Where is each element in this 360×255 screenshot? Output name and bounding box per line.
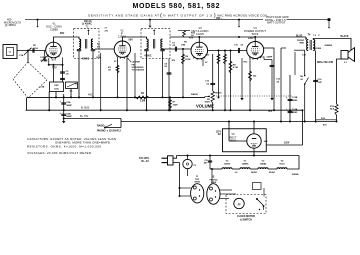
svg-text:(: ( bbox=[160, 13, 162, 19]
svg-text:7.7V: 7.7V bbox=[52, 68, 57, 70]
svg-text:OFF: OFF bbox=[268, 111, 273, 113]
svg-text:24VAC: 24VAC bbox=[251, 171, 258, 174]
svg-text:12BE6: 12BE6 bbox=[50, 28, 59, 32]
svg-text:455KC: 455KC bbox=[82, 57, 90, 60]
svg-text:AVC: AVC bbox=[88, 94, 93, 97]
svg-text:50C5: 50C5 bbox=[252, 32, 259, 36]
svg-text:B+ 70V: B+ 70V bbox=[80, 115, 89, 118]
svg-text:C1B: C1B bbox=[40, 87, 45, 89]
svg-text:+: + bbox=[286, 96, 288, 100]
svg-text:C13B: C13B bbox=[292, 97, 298, 99]
svg-text:12AV6: 12AV6 bbox=[224, 162, 231, 165]
svg-text:VOLTAGES: 20,000 OHMS/VOLT MET: VOLTAGES: 20,000 OHMS/VOLT METER bbox=[27, 151, 91, 155]
svg-text:BLACK: BLACK bbox=[341, 35, 349, 38]
svg-text:470K: 470K bbox=[185, 58, 191, 61]
svg-text:100K: 100K bbox=[96, 57, 101, 59]
svg-text:40MF: 40MF bbox=[292, 111, 298, 114]
svg-text:200 AC: 200 AC bbox=[84, 20, 92, 23]
svg-text:+: + bbox=[59, 111, 61, 115]
svg-text:RADIO: RADIO bbox=[191, 93, 198, 96]
svg-text:FRONT: FRONT bbox=[297, 40, 305, 42]
svg-text:80V: 80V bbox=[60, 32, 65, 35]
svg-text:RED: RED bbox=[300, 43, 305, 45]
svg-text:46K ~: 46K ~ bbox=[216, 17, 223, 20]
svg-text:105-125V: 105-125V bbox=[139, 158, 149, 160]
svg-text:B- BUS: B- BUS bbox=[81, 107, 90, 110]
svg-text:COIL: COIL bbox=[54, 89, 60, 91]
svg-text:BROWN: BROWN bbox=[313, 48, 322, 50]
svg-text:M: M bbox=[238, 202, 241, 206]
svg-text:12BE6: 12BE6 bbox=[242, 163, 249, 165]
svg-text:60~ AC: 60~ AC bbox=[141, 160, 149, 163]
svg-text:AC: AC bbox=[218, 133, 222, 136]
svg-text:OSC: OSC bbox=[54, 85, 59, 87]
svg-text:PHONO: PHONO bbox=[214, 93, 222, 95]
svg-text:TO CHASSIS: TO CHASSIS bbox=[132, 69, 145, 72]
svg-text:MODELS 580, 581, 582: MODELS 580, 581, 582 bbox=[133, 3, 220, 10]
svg-text:C13A: C13A bbox=[292, 108, 298, 111]
svg-text:CENTER: CENTER bbox=[132, 62, 141, 64]
svg-text:455KC: 455KC bbox=[144, 55, 151, 58]
svg-text:125V: 125V bbox=[284, 143, 290, 145]
svg-text:10M: 10M bbox=[181, 44, 185, 46]
svg-text:SENSITIVITY AND STAGE GAINS AT: SENSITIVITY AND STAGE GAINS AT bbox=[88, 13, 159, 17]
svg-text:30MF: 30MF bbox=[66, 105, 72, 107]
svg-text:1M: 1M bbox=[97, 46, 100, 48]
svg-text:VOLUME: VOLUME bbox=[196, 104, 214, 109]
svg-text:TOP: TOP bbox=[195, 179, 200, 181]
svg-text:50V: 50V bbox=[129, 39, 134, 42]
svg-text:RADIO: RADIO bbox=[97, 125, 105, 128]
svg-text:VAC RMS ACROSS VOICE COIL: VAC RMS ACROSS VOICE COIL bbox=[217, 13, 268, 17]
svg-text:50MF: 50MF bbox=[66, 116, 72, 118]
svg-text:50VAC: 50VAC bbox=[269, 171, 276, 174]
svg-text:2.2M: 2.2M bbox=[140, 101, 145, 103]
svg-text:CD: CD bbox=[204, 160, 208, 162]
svg-text:117V: 117V bbox=[216, 131, 222, 133]
svg-text:4.7M: 4.7M bbox=[233, 66, 238, 69]
svg-text:+: + bbox=[59, 100, 61, 104]
svg-text:WATT OUTPUT: WATT OUTPUT bbox=[267, 21, 286, 25]
svg-text:C1A: C1A bbox=[19, 54, 24, 57]
svg-text:PRONG: PRONG bbox=[209, 179, 217, 181]
svg-text:1K: 1K bbox=[191, 35, 194, 37]
svg-text:330K: 330K bbox=[173, 104, 179, 106]
svg-text:.02MF: .02MF bbox=[266, 57, 273, 59]
svg-text:PHONO ◄ S2 ON R13: PHONO ◄ S2 ON R13 bbox=[97, 130, 121, 133]
svg-text:12AV6: 12AV6 bbox=[196, 32, 204, 36]
svg-text:50C5: 50C5 bbox=[279, 163, 285, 165]
svg-text:GREEN: GREEN bbox=[324, 45, 332, 47]
svg-text:12BA6: 12BA6 bbox=[260, 162, 268, 165]
svg-text:@ 455KC: @ 455KC bbox=[5, 23, 16, 27]
svg-text:RED+YELLOW: RED+YELLOW bbox=[317, 62, 334, 64]
svg-text:30MF: 30MF bbox=[292, 100, 298, 102]
svg-text:RESISTORS: OHMS, K=1000, M=1,0: RESISTORS: OHMS, K=1000, M=1,000,000 bbox=[27, 144, 101, 148]
svg-text:PIN: PIN bbox=[132, 64, 136, 66]
svg-text:BLUE: BLUE bbox=[296, 36, 303, 38]
svg-text:150MA: 150MA bbox=[291, 173, 298, 176]
svg-text:GROUNDED: GROUNDED bbox=[132, 67, 144, 69]
svg-text:C5B: C5B bbox=[66, 114, 71, 116]
svg-text:C5A: C5A bbox=[66, 101, 71, 104]
svg-text:½ WATT OUTPUT OF 1.5: ½ WATT OUTPUT OF 1.5 bbox=[163, 13, 212, 17]
svg-text:& SWITCH: & SWITCH bbox=[240, 219, 252, 222]
svg-text:ON: ON bbox=[300, 76, 304, 78]
svg-text:30V: 30V bbox=[172, 60, 176, 62]
